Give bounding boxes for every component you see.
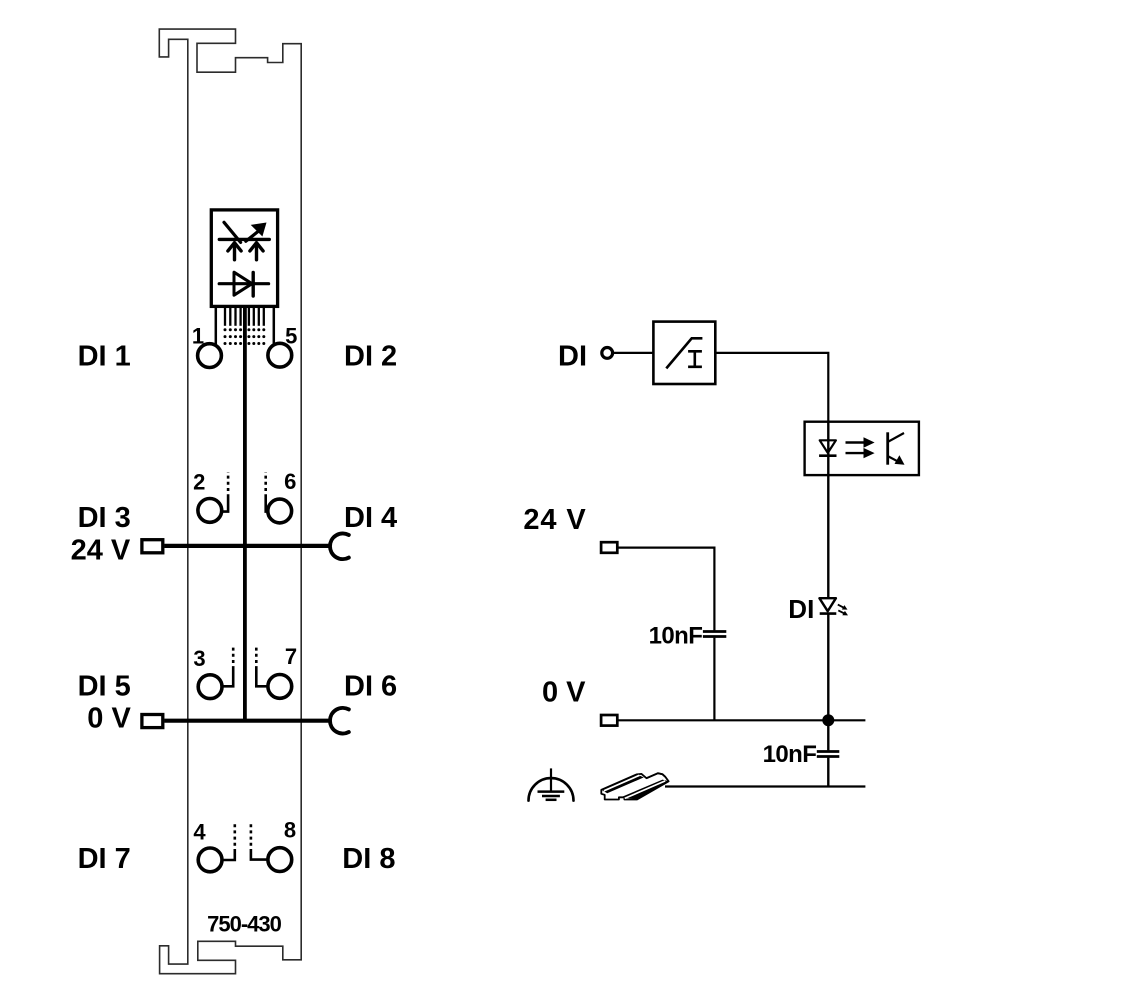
svg-text:1: 1 [192, 324, 204, 349]
contact 3 spring [222, 666, 233, 686]
pin dot grid right [247, 328, 265, 345]
wire LED to junction [827, 614, 829, 751]
contact 4 [198, 848, 222, 872]
svg-text:DI: DI [788, 594, 814, 624]
24V rail wire [164, 544, 331, 548]
diode D1 in LED box [219, 282, 268, 285]
wire filter to optocoupler [715, 353, 828, 422]
DI input terminal circle [602, 348, 613, 359]
optocoupler light arrow top [846, 441, 865, 443]
module outline 750-430 [159, 29, 301, 974]
svg-text:6: 6 [284, 469, 296, 494]
pins under LED box [215, 306, 218, 346]
wire through optocoupler [827, 422, 829, 599]
contact 8 spring [251, 849, 268, 860]
svg-text:DI 4: DI 4 [344, 502, 397, 534]
0V rail wire [164, 719, 331, 723]
svg-text:2: 2 [193, 470, 205, 495]
svg-text:4: 4 [193, 819, 206, 844]
contact 2 spring [222, 494, 228, 511]
wire 24V to capacitor [618, 548, 714, 631]
svg-text:750-430: 750-430 [207, 912, 282, 937]
24V jumper contact arc [330, 534, 349, 560]
24V terminal tab [142, 540, 163, 553]
LED light rays [838, 605, 844, 608]
svg-text:8: 8 [284, 817, 296, 842]
contact 4 spring [222, 849, 235, 860]
contact 6 [268, 499, 292, 523]
LED symbol arrow [246, 230, 261, 242]
svg-text:DI 3: DI 3 [78, 502, 131, 534]
0V wire [618, 719, 865, 721]
center bus wire [243, 306, 247, 720]
wire capacitor C2 to shield rail [827, 758, 829, 787]
contact 7 spring [256, 666, 267, 686]
svg-text:24 V: 24 V [523, 504, 586, 536]
shield wire [665, 785, 865, 787]
junction node [822, 714, 834, 726]
svg-text:7: 7 [285, 644, 297, 669]
earth ground symbol [550, 768, 552, 791]
optocoupler box U3 [805, 422, 919, 475]
DIN rail symbol [601, 773, 668, 799]
0V terminal square right [601, 715, 617, 726]
svg-text:DI 7: DI 7 [78, 843, 131, 875]
svg-text:0 V: 0 V [87, 703, 131, 735]
contact 3 [198, 675, 222, 699]
contact 5 [268, 343, 292, 367]
optocoupler light arrow bottom [846, 452, 865, 454]
svg-text:24 V: 24 V [71, 534, 131, 566]
svg-text:5: 5 [285, 324, 297, 349]
LED box U1 [211, 210, 277, 307]
pin dot grid left [224, 328, 243, 345]
optocoupler LED [820, 440, 836, 453]
0V jumper contact arc [330, 708, 349, 734]
svg-text:10nF: 10nF [649, 623, 703, 650]
contact 7 [268, 675, 292, 699]
svg-text:0 V: 0 V [542, 677, 586, 709]
wire DI to filter [614, 352, 654, 354]
svg-text:DI 5: DI 5 [78, 671, 131, 703]
LED symbol up arrow right [255, 245, 258, 260]
LED symbol bar [219, 238, 269, 241]
LED symbol left diagonal [224, 222, 241, 242]
svg-text:DI: DI [558, 341, 587, 373]
contact 1 [198, 344, 222, 368]
contact 6 spring [266, 494, 268, 511]
svg-text:DI 8: DI 8 [342, 843, 395, 875]
filter ramp symbol [666, 338, 702, 368]
wire capacitor to 0V [713, 638, 715, 721]
svg-text:DI 2: DI 2 [344, 341, 397, 373]
LED symbol up arrow left [233, 245, 236, 260]
filter box U2 [653, 322, 715, 384]
phototransistor Q1 [886, 432, 889, 464]
svg-text:DI 6: DI 6 [344, 671, 397, 703]
svg-text:3: 3 [193, 646, 205, 671]
0V terminal tab [142, 715, 163, 728]
24V terminal square right [601, 542, 617, 553]
contact 8 [268, 848, 292, 872]
filter I symbol [688, 351, 702, 367]
svg-text:DI 1: DI 1 [78, 341, 131, 373]
contact 2 [198, 499, 222, 523]
svg-text:10nF: 10nF [763, 741, 817, 768]
